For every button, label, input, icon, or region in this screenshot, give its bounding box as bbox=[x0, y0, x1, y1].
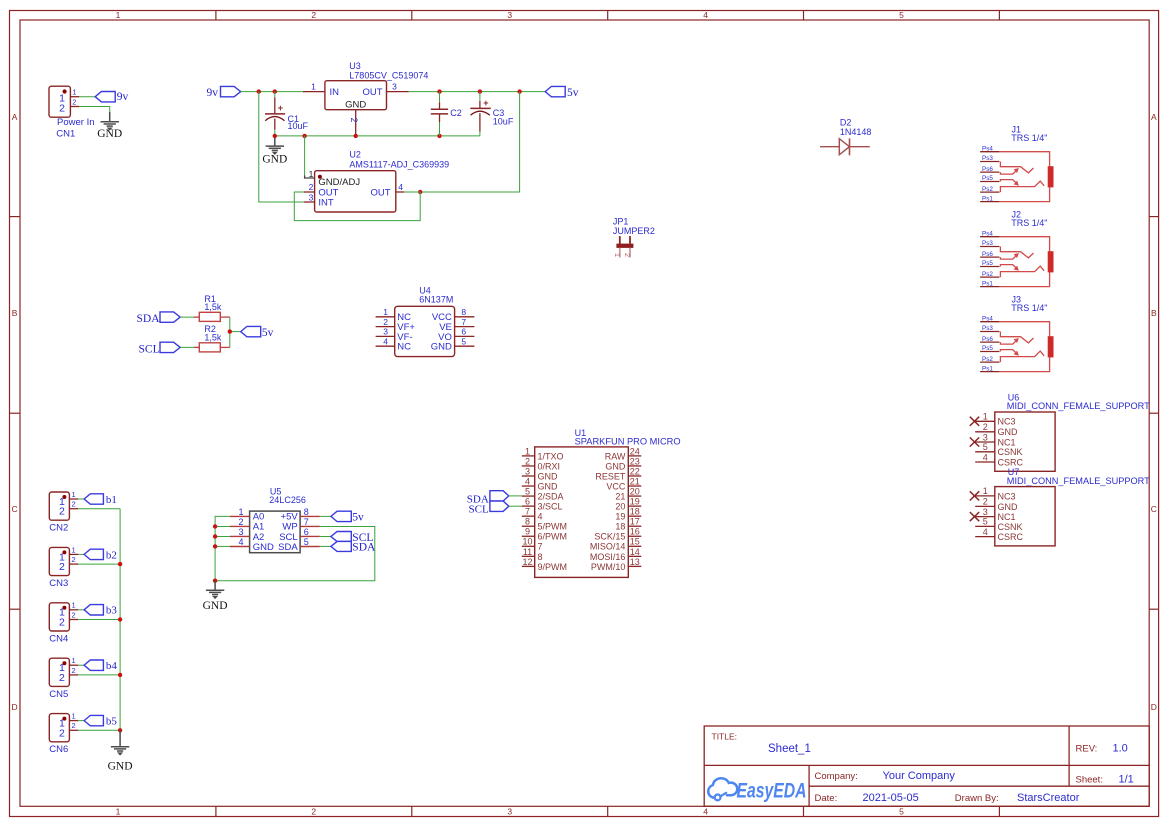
svg-text:2: 2 bbox=[72, 555, 76, 564]
svg-text:TRS 1/4": TRS 1/4" bbox=[1011, 218, 1047, 228]
svg-text:1: 1 bbox=[983, 412, 988, 422]
connector CN2 bbox=[49, 490, 78, 534]
net flag SDA bbox=[137, 312, 181, 325]
node junction CN6 gnd bbox=[118, 728, 122, 732]
svg-text:14: 14 bbox=[630, 547, 640, 557]
svg-text:+: + bbox=[278, 103, 283, 113]
svg-text:MISO/14: MISO/14 bbox=[590, 542, 626, 552]
svg-text:6/PWM: 6/PWM bbox=[538, 532, 568, 542]
svg-text:8: 8 bbox=[304, 507, 309, 517]
svg-text:5v: 5v bbox=[262, 327, 274, 339]
wire CN4 pin1 to b3 flag bbox=[78, 609, 84, 611]
svg-text:7: 7 bbox=[538, 542, 543, 552]
svg-text:1.0: 1.0 bbox=[1113, 743, 1128, 755]
svg-text:2: 2 bbox=[349, 117, 359, 122]
svg-text:1: 1 bbox=[72, 656, 76, 665]
svg-text:16: 16 bbox=[630, 527, 640, 537]
svg-text:2: 2 bbox=[59, 727, 65, 739]
wire U5 +5V to flag bbox=[320, 515, 331, 517]
svg-text:5/PWM: 5/PWM bbox=[538, 522, 568, 532]
svg-text:SDA: SDA bbox=[137, 313, 161, 325]
svg-text:NC: NC bbox=[397, 342, 411, 353]
net flag 5v (U5) bbox=[331, 511, 364, 523]
svg-text:2: 2 bbox=[983, 497, 988, 507]
svg-text:CN3: CN3 bbox=[49, 578, 68, 589]
svg-text:Ps3: Ps3 bbox=[982, 325, 993, 332]
wire CN4 pin2 to gnd rail bbox=[78, 619, 120, 621]
op-amp U3 L7805CV bbox=[303, 61, 428, 136]
node junction C2 bbox=[437, 89, 441, 93]
svg-text:SCL: SCL bbox=[469, 503, 489, 515]
svg-text:2: 2 bbox=[983, 422, 988, 432]
svg-text:2: 2 bbox=[238, 517, 243, 527]
svg-text:7: 7 bbox=[304, 517, 309, 527]
svg-text:1: 1 bbox=[72, 712, 76, 721]
svg-text:SDA: SDA bbox=[352, 542, 376, 554]
net flag b1 bbox=[84, 494, 117, 506]
ground GND (C1) bbox=[266, 136, 284, 155]
net flag SCL (U5) bbox=[331, 532, 373, 544]
svg-text:NC3: NC3 bbox=[998, 491, 1016, 501]
svg-text:Ps2: Ps2 bbox=[982, 186, 993, 193]
svg-text:1,5k: 1,5k bbox=[204, 333, 222, 343]
node junction CN4 gnd bbox=[118, 617, 122, 621]
svg-text:CN6: CN6 bbox=[49, 744, 68, 755]
svg-text:1: 1 bbox=[116, 807, 121, 817]
svg-text:NC3: NC3 bbox=[998, 417, 1016, 427]
EasyEDA logo bbox=[708, 778, 806, 802]
svg-text:C: C bbox=[12, 504, 18, 514]
svg-text:IN: IN bbox=[330, 87, 340, 98]
node junction C2 bottom bbox=[437, 134, 441, 138]
svg-text:REV:: REV: bbox=[1076, 744, 1098, 755]
op-amp U1 SPARKFUN PRO MICRO bbox=[522, 428, 681, 577]
node junction U2 branch bbox=[517, 89, 521, 93]
net flag SCL (U1) bbox=[469, 501, 509, 515]
svg-text:9v: 9v bbox=[207, 87, 219, 99]
svg-text:SCL: SCL bbox=[139, 344, 160, 356]
wire WP loop to ground rail bbox=[215, 527, 375, 581]
svg-text:2: 2 bbox=[59, 561, 65, 573]
svg-text:OUT: OUT bbox=[370, 188, 390, 199]
svg-text:3/SCL: 3/SCL bbox=[538, 502, 563, 512]
svg-text:CSRC: CSRC bbox=[998, 532, 1024, 542]
svg-text:AMS1117-ADJ_C369939: AMS1117-ADJ_C369939 bbox=[349, 159, 449, 169]
svg-text:3: 3 bbox=[507, 807, 512, 817]
wire SDA to R1 bbox=[180, 316, 199, 318]
wire CN3 pin1 to b2 flag bbox=[78, 553, 84, 555]
svg-text:0/RXI: 0/RXI bbox=[538, 461, 561, 471]
svg-text:PWM/10: PWM/10 bbox=[591, 562, 626, 572]
svg-text:4: 4 bbox=[383, 336, 388, 346]
svg-text:6: 6 bbox=[304, 527, 309, 537]
wire U3 OUT to 5v flag bbox=[409, 91, 546, 93]
svg-text:Sheet:: Sheet: bbox=[1076, 775, 1103, 786]
wire U2 OUT loop bbox=[294, 192, 420, 221]
wire CN2 pin2 to gnd rail bbox=[78, 508, 120, 510]
node junction U5 pin4 bbox=[213, 544, 217, 548]
svg-text:Ps2: Ps2 bbox=[982, 271, 993, 278]
node junction 9v/C1 bbox=[273, 89, 277, 93]
svg-text:3: 3 bbox=[983, 432, 988, 442]
node junction CN3 gnd bbox=[118, 562, 122, 566]
svg-text:4: 4 bbox=[538, 512, 543, 522]
svg-text:Ps5: Ps5 bbox=[982, 345, 993, 352]
svg-text:Ps5: Ps5 bbox=[982, 260, 993, 267]
svg-text:5v: 5v bbox=[567, 87, 579, 99]
wire CN1 pin1 to 9v flag bbox=[79, 96, 95, 98]
svg-text:2: 2 bbox=[59, 617, 65, 629]
svg-text:5v: 5v bbox=[352, 512, 364, 524]
title block bbox=[704, 726, 1149, 806]
svg-text:2: 2 bbox=[72, 610, 76, 619]
svg-text:4: 4 bbox=[983, 527, 988, 537]
svg-text:CN2: CN2 bbox=[49, 523, 68, 534]
svg-text:10: 10 bbox=[522, 537, 532, 547]
net flag SDA (U5) bbox=[331, 541, 376, 553]
wire SDA to U1 pin5 bbox=[509, 495, 522, 497]
svg-text:9/PWM: 9/PWM bbox=[538, 562, 568, 572]
svg-text:Date:: Date: bbox=[815, 793, 838, 804]
svg-text:11: 11 bbox=[523, 547, 532, 557]
capacitor C2 bbox=[431, 92, 462, 136]
svg-text:CSRC: CSRC bbox=[998, 457, 1024, 467]
svg-text:Company:: Company: bbox=[815, 771, 858, 782]
wire CN6 pin2 to gnd rail bbox=[78, 729, 120, 731]
svg-text:4: 4 bbox=[703, 10, 708, 20]
svg-text:19: 19 bbox=[630, 497, 640, 507]
svg-text:CSNK: CSNK bbox=[998, 447, 1023, 457]
svg-text:1/TXO: 1/TXO bbox=[538, 451, 564, 461]
svg-text:1: 1 bbox=[613, 253, 622, 257]
svg-text:4: 4 bbox=[238, 537, 243, 547]
svg-text:VCC: VCC bbox=[606, 481, 626, 491]
svg-text:Drawn By:: Drawn By: bbox=[955, 793, 999, 804]
ground GND (CN chain) bbox=[111, 730, 129, 755]
svg-text:20: 20 bbox=[630, 486, 640, 496]
svg-text:2: 2 bbox=[72, 666, 76, 675]
svg-text:Ps3: Ps3 bbox=[982, 240, 993, 247]
wire SCL to U1 pin6 bbox=[509, 505, 522, 507]
svg-text:D: D bbox=[12, 702, 18, 712]
svg-text:2: 2 bbox=[72, 97, 76, 106]
connector CN3 bbox=[49, 545, 78, 589]
svg-text:GND: GND bbox=[431, 342, 452, 353]
wire R1/R2 junction to 5v bbox=[229, 317, 231, 347]
svg-text:5: 5 bbox=[304, 537, 309, 547]
jumper JP1 JUMPER2 bbox=[613, 216, 655, 257]
svg-text:D: D bbox=[1151, 702, 1157, 712]
svg-text:Ps5: Ps5 bbox=[982, 175, 993, 182]
svg-text:Ps2: Ps2 bbox=[982, 356, 993, 363]
svg-text:b5: b5 bbox=[106, 716, 118, 728]
svg-text:GND: GND bbox=[998, 427, 1019, 437]
svg-text:4: 4 bbox=[983, 452, 988, 462]
wire U5 SCL to flag bbox=[320, 536, 331, 538]
net flag b3 bbox=[84, 605, 117, 617]
svg-text:CN1: CN1 bbox=[56, 128, 75, 139]
net flag SDA (U1) bbox=[467, 491, 509, 506]
wire CN3 pin2 to gnd rail bbox=[78, 563, 120, 565]
svg-text:JP1: JP1 bbox=[613, 216, 629, 226]
diode D2 1N4148 bbox=[820, 118, 871, 156]
svg-text:5: 5 bbox=[983, 442, 988, 452]
op-amp U4 6N137M bbox=[376, 286, 475, 357]
svg-text:b1: b1 bbox=[106, 494, 117, 506]
svg-text:CN5: CN5 bbox=[49, 689, 68, 700]
svg-text:2: 2 bbox=[59, 672, 65, 684]
svg-text:GND: GND bbox=[253, 542, 274, 553]
svg-text:L7805CV_C519074: L7805CV_C519074 bbox=[349, 70, 428, 80]
svg-text:3: 3 bbox=[309, 192, 314, 202]
svg-text:2021-05-05: 2021-05-05 bbox=[863, 792, 919, 804]
svg-text:Ps6: Ps6 bbox=[982, 251, 993, 258]
svg-text:GND: GND bbox=[97, 128, 122, 140]
svg-text:+: + bbox=[483, 98, 488, 108]
node junction U2 pin4 bbox=[418, 190, 422, 194]
svg-text:GND: GND bbox=[998, 502, 1019, 512]
svg-text:21: 21 bbox=[630, 476, 640, 486]
svg-text:Ps6: Ps6 bbox=[982, 166, 993, 173]
node junction 9v/INT bbox=[257, 89, 261, 93]
connector CN6 bbox=[49, 712, 78, 756]
svg-text:Ps4: Ps4 bbox=[982, 230, 993, 237]
svg-text:1,5k: 1,5k bbox=[204, 302, 222, 312]
svg-text:3: 3 bbox=[238, 527, 243, 537]
node junction U3 GND bbox=[354, 134, 358, 138]
svg-text:2: 2 bbox=[311, 10, 316, 20]
wire 9v down to U2 INT bbox=[259, 92, 304, 202]
svg-text:8: 8 bbox=[538, 552, 543, 562]
node junction U5 pin3 bbox=[213, 534, 217, 538]
svg-text:MOSI/16: MOSI/16 bbox=[590, 552, 626, 562]
node junction C1/gnd bbox=[273, 134, 277, 138]
svg-text:9: 9 bbox=[525, 527, 530, 537]
svg-text:18: 18 bbox=[615, 522, 625, 532]
node junction U5 pin2 bbox=[213, 524, 217, 528]
svg-text:RAW: RAW bbox=[605, 451, 626, 461]
svg-text:TRS 1/4": TRS 1/4" bbox=[1011, 303, 1047, 313]
op-amp U5 24LC256 bbox=[230, 487, 320, 553]
connector J1 TRS 1/4" bbox=[980, 125, 1053, 203]
net flag 9v (rail source) bbox=[207, 86, 241, 99]
svg-text:4: 4 bbox=[703, 807, 708, 817]
svg-text:5: 5 bbox=[525, 486, 530, 496]
wire CN5 pin2 to gnd rail bbox=[78, 674, 120, 676]
net flag 9v (at CN1) bbox=[95, 91, 128, 103]
svg-text:2/SDA: 2/SDA bbox=[538, 491, 564, 501]
svg-text:NC1: NC1 bbox=[998, 437, 1016, 447]
svg-text:MIDI_CONN_FEMALE_SUPPORT: MIDI_CONN_FEMALE_SUPPORT bbox=[1007, 476, 1151, 486]
svg-text:1: 1 bbox=[383, 307, 388, 317]
wire ground rail under regulator bbox=[275, 135, 480, 137]
svg-text:3: 3 bbox=[525, 466, 530, 476]
svg-text:10uF: 10uF bbox=[493, 116, 514, 126]
svg-text:1: 1 bbox=[525, 446, 530, 456]
svg-text:TITLE:: TITLE: bbox=[712, 732, 738, 742]
svg-text:b3: b3 bbox=[106, 605, 118, 617]
connector J2 TRS 1/4" bbox=[980, 210, 1053, 288]
svg-text:5: 5 bbox=[899, 807, 904, 817]
svg-text:5: 5 bbox=[983, 517, 988, 527]
connector U7 MIDI_CONN_FEMALE_SUPPORT bbox=[970, 467, 1151, 546]
svg-text:Ps3: Ps3 bbox=[982, 155, 993, 162]
svg-text:18: 18 bbox=[630, 507, 640, 517]
svg-text:GND/ADJ: GND/ADJ bbox=[318, 177, 360, 188]
node junction CN5 gnd bbox=[118, 673, 122, 677]
svg-text:JUMPER2: JUMPER2 bbox=[613, 226, 655, 236]
connector CN5 bbox=[49, 656, 78, 700]
capacitor C3 bbox=[470, 92, 514, 136]
svg-text:20: 20 bbox=[615, 502, 625, 512]
svg-text:b2: b2 bbox=[106, 549, 117, 561]
svg-text:1: 1 bbox=[72, 490, 76, 499]
resistor R2 bbox=[194, 324, 230, 352]
svg-text:1N4148: 1N4148 bbox=[840, 127, 872, 137]
ground GND (U5) bbox=[206, 581, 224, 599]
svg-text:StarsCreator: StarsCreator bbox=[1017, 792, 1080, 804]
wire gnd rail CN2-CN6 bbox=[119, 509, 121, 731]
net flag b5 bbox=[84, 715, 117, 727]
svg-text:b4: b4 bbox=[106, 660, 118, 672]
svg-text:1: 1 bbox=[72, 88, 76, 97]
svg-text:1: 1 bbox=[72, 601, 76, 610]
svg-text:2: 2 bbox=[72, 721, 76, 730]
node junction U2 pin1 branch bbox=[302, 134, 306, 138]
svg-text:4: 4 bbox=[398, 182, 403, 192]
svg-text:3: 3 bbox=[383, 327, 388, 337]
svg-text:5: 5 bbox=[461, 336, 466, 346]
connector J3 TRS 1/4" bbox=[980, 295, 1053, 373]
svg-text:C: C bbox=[1151, 504, 1157, 514]
svg-text:10uF: 10uF bbox=[288, 121, 309, 131]
svg-text:1: 1 bbox=[116, 10, 121, 20]
node junction C3 bbox=[478, 89, 482, 93]
svg-text:Ps1: Ps1 bbox=[982, 280, 993, 287]
svg-text:INT: INT bbox=[318, 198, 334, 209]
svg-text:1/1: 1/1 bbox=[1119, 774, 1134, 786]
svg-text:2: 2 bbox=[59, 103, 65, 115]
svg-text:SPARKFUN PRO MICRO: SPARKFUN PRO MICRO bbox=[575, 436, 681, 446]
wire U5 SDA to flag bbox=[320, 545, 331, 547]
ground GND (CN1) bbox=[101, 112, 119, 130]
svg-text:17: 17 bbox=[630, 517, 640, 527]
node junction R1-R2 bbox=[228, 329, 232, 333]
connector U6 MIDI_CONN_FEMALE_SUPPORT bbox=[970, 393, 1151, 472]
svg-text:A: A bbox=[12, 112, 18, 122]
svg-text:24LC256: 24LC256 bbox=[269, 495, 306, 505]
svg-text:A: A bbox=[1151, 112, 1157, 122]
svg-text:4: 4 bbox=[525, 476, 530, 486]
svg-text:19: 19 bbox=[615, 512, 625, 522]
svg-text:CSNK: CSNK bbox=[998, 522, 1023, 532]
svg-text:GND: GND bbox=[108, 761, 133, 773]
svg-text:Ps1: Ps1 bbox=[982, 365, 993, 372]
svg-text:1: 1 bbox=[311, 82, 316, 92]
svg-text:SCK/15: SCK/15 bbox=[594, 532, 625, 542]
svg-text:NC1: NC1 bbox=[998, 512, 1016, 522]
svg-text:Power In: Power In bbox=[57, 117, 95, 128]
svg-text:22: 22 bbox=[630, 466, 640, 476]
svg-text:EasyEDA: EasyEDA bbox=[737, 780, 807, 803]
svg-text:CN4: CN4 bbox=[49, 633, 68, 644]
svg-text:15: 15 bbox=[630, 537, 640, 547]
svg-text:GND: GND bbox=[605, 461, 626, 471]
svg-text:21: 21 bbox=[615, 491, 625, 501]
svg-text:9v: 9v bbox=[117, 91, 129, 103]
capacitor C1 bbox=[265, 92, 309, 136]
svg-text:GND: GND bbox=[262, 153, 287, 165]
svg-text:6: 6 bbox=[461, 327, 466, 337]
svg-text:7: 7 bbox=[461, 317, 466, 327]
svg-text:2: 2 bbox=[311, 807, 316, 817]
wire CN6 pin1 to b5 flag bbox=[78, 720, 84, 722]
svg-text:OUT: OUT bbox=[362, 87, 382, 98]
svg-text:2: 2 bbox=[309, 182, 314, 192]
svg-text:8: 8 bbox=[525, 517, 530, 527]
net flag 5v (rail) bbox=[545, 86, 579, 99]
svg-text:Sheet_1: Sheet_1 bbox=[768, 743, 811, 755]
svg-text:B: B bbox=[1151, 308, 1157, 318]
svg-text:24: 24 bbox=[630, 446, 640, 456]
svg-text:3: 3 bbox=[507, 10, 512, 20]
svg-text:1: 1 bbox=[238, 507, 243, 517]
net flag 5v (pullups) bbox=[241, 326, 274, 339]
op-amp U2 AMS1117-ADJ bbox=[304, 150, 449, 213]
wire 9v rail to U3 IN bbox=[241, 91, 303, 93]
svg-text:Ps1: Ps1 bbox=[982, 195, 993, 202]
svg-text:C2: C2 bbox=[450, 108, 462, 118]
wire 5v rail down to U2 OUT pin4 bbox=[420, 92, 519, 192]
svg-text:Ps6: Ps6 bbox=[982, 336, 993, 343]
svg-text:6: 6 bbox=[525, 497, 530, 507]
svg-text:GND: GND bbox=[538, 481, 559, 491]
svg-text:5: 5 bbox=[899, 10, 904, 20]
wire CN2 pin1 to b1 flag bbox=[78, 498, 84, 500]
node junction U5 gnd bbox=[213, 579, 217, 583]
connector CN4 bbox=[49, 601, 78, 645]
wire SCL to R2 bbox=[180, 346, 199, 348]
svg-text:2: 2 bbox=[623, 253, 632, 257]
svg-text:8: 8 bbox=[461, 307, 466, 317]
svg-text:1: 1 bbox=[309, 169, 314, 179]
resistor R1 bbox=[194, 294, 230, 322]
connector CN1 bbox=[49, 86, 95, 139]
svg-text:RESET: RESET bbox=[595, 471, 626, 481]
svg-text:3: 3 bbox=[392, 82, 397, 92]
svg-text:3: 3 bbox=[983, 507, 988, 517]
svg-text:13: 13 bbox=[630, 557, 640, 567]
svg-text:Ps4: Ps4 bbox=[982, 145, 993, 152]
svg-text:TRS 1/4": TRS 1/4" bbox=[1011, 133, 1047, 143]
svg-text:SDA: SDA bbox=[278, 542, 298, 553]
svg-text:23: 23 bbox=[630, 456, 640, 466]
svg-text:Ps4: Ps4 bbox=[982, 315, 993, 322]
net flag b4 bbox=[84, 660, 117, 672]
svg-text:2: 2 bbox=[59, 506, 65, 518]
svg-text:2: 2 bbox=[383, 317, 388, 327]
svg-text:6N137M: 6N137M bbox=[419, 295, 453, 305]
net flag SCL bbox=[139, 342, 181, 355]
svg-text:B: B bbox=[12, 308, 18, 318]
wire gnd rail down to U2 pin1 bbox=[304, 136, 306, 176]
svg-text:2: 2 bbox=[72, 500, 76, 509]
svg-text:1: 1 bbox=[72, 545, 76, 554]
svg-text:MIDI_CONN_FEMALE_SUPPORT: MIDI_CONN_FEMALE_SUPPORT bbox=[1007, 401, 1151, 411]
svg-text:GND: GND bbox=[203, 600, 228, 612]
svg-text:U2: U2 bbox=[349, 150, 361, 160]
wire U5 left rail to ground bbox=[215, 516, 230, 580]
